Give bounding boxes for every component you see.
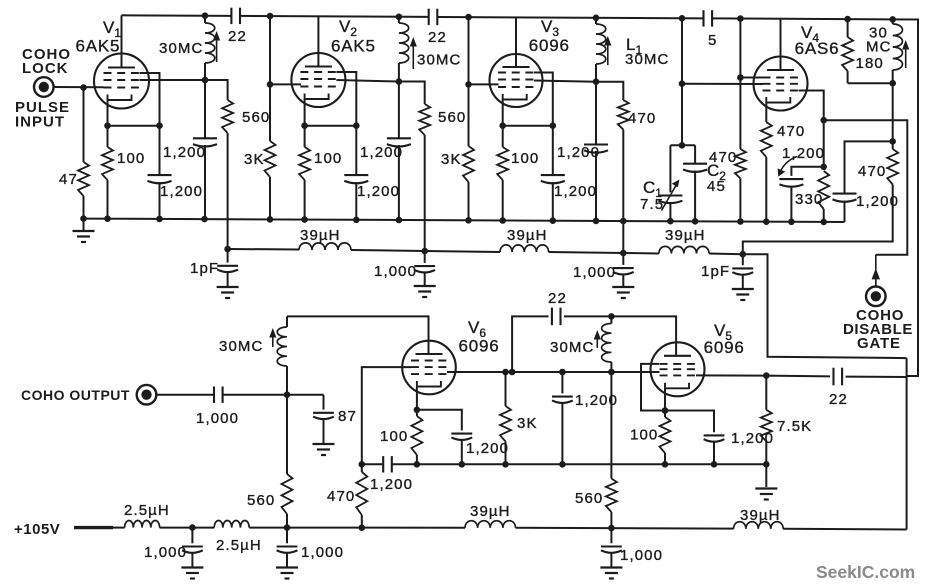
wire 470 output to filter line: [743, 185, 893, 255]
resistor 3K (stage 1): [267, 13, 274, 20]
wire +105V to coil: [113, 527, 125, 529]
svg-text:INPUT: INPUT: [15, 114, 65, 131]
svg-text:3K: 3K: [517, 415, 538, 432]
capacitor 22 (output to disable rail): [832, 368, 834, 386]
svg-text:+105V: +105V: [14, 521, 60, 538]
wire V4 cathode down: [765, 103, 767, 123]
svg-text:7.5K: 7.5K: [777, 418, 812, 435]
resistor 560 (stage 2): [399, 82, 425, 105]
svg-text:7.5: 7.5: [640, 196, 664, 213]
node bus C1 C2: [667, 218, 674, 225]
wire to V4 grid: [682, 83, 763, 85]
svg-text:30MC: 30MC: [550, 339, 594, 356]
wire output node to 87 cap: [287, 394, 324, 396]
wire 22 branch up: [512, 316, 548, 372]
node V2 cathode junction: [301, 122, 308, 129]
node COHO output: [284, 391, 291, 398]
node V5 grid: [608, 369, 615, 376]
capacitor 1,000 a: [424, 251, 426, 263]
arrow tuning slug V4 tank: [905, 47, 907, 68]
svg-text:1pF: 1pF: [190, 260, 219, 277]
svg-text:560: 560: [242, 109, 270, 126]
inductor 30MC (V5 tank): [610, 316, 612, 323]
svg-text:30MC: 30MC: [219, 338, 263, 355]
wire V5 cathode down: [664, 388, 666, 410]
svg-text:100: 100: [511, 150, 539, 167]
wire V6 plate bus: [287, 316, 429, 354]
svg-text:22: 22: [228, 28, 247, 45]
svg-text:30MC: 30MC: [625, 51, 669, 68]
terminal COHO DISABLE GATE: [866, 287, 886, 307]
wire input node down to R 47: [83, 88, 85, 163]
node V4 grid: [679, 80, 686, 87]
wire to V3 grid: [469, 83, 499, 85]
wire 22 to V5 plate: [564, 316, 676, 355]
resistor 560 (V5 feed): [610, 372, 612, 479]
svg-text:6096: 6096: [529, 36, 570, 55]
node 560 bottom: [284, 524, 291, 531]
wire filter line seg 3: [425, 251, 500, 252]
tube V6 6096: [402, 341, 456, 395]
wire top plate bus segment 4 + right rail: [712, 18, 918, 376]
node V4 gate tap: [820, 117, 827, 124]
svg-text:6AS6: 6AS6: [795, 39, 840, 58]
wire V5 cathode to 1200 bypass: [665, 411, 714, 433]
wire input to V1 grid: [54, 86, 104, 88]
wire cap 22 to right rail: [846, 376, 907, 378]
wire filter line seg 5: [623, 252, 659, 255]
capacitor 1,200 (V1 screen bypass): [159, 126, 161, 175]
svg-text:COHO OUTPUT: COHO OUTPUT: [21, 387, 130, 403]
inductor 30MC (V4 tank): [889, 16, 896, 23]
tube V1 6AK5: [94, 54, 149, 109]
capacitor 1,200 (V6 bypass): [451, 433, 472, 435]
wire V4 screen: [740, 77, 763, 79]
node bus V1 set: [104, 215, 111, 222]
svg-text:MC: MC: [866, 39, 892, 56]
svg-text:45: 45: [707, 178, 726, 195]
capacitor 1,000 bl: [191, 528, 193, 544]
svg-text:1,000: 1,000: [144, 544, 187, 561]
svg-text:180: 180: [856, 55, 884, 72]
svg-text:22: 22: [548, 290, 567, 307]
svg-text:39µH: 39µH: [740, 507, 781, 524]
wire V2 plate to top bus: [317, 16, 319, 66]
ground 1pF a: [217, 286, 239, 288]
svg-text:100: 100: [117, 150, 145, 167]
node V3 cathode junction: [499, 122, 506, 129]
svg-text:1,000: 1,000: [573, 264, 616, 281]
capacitor 1,200 series (cathode rail): [382, 456, 384, 472]
resistor 100 (V6): [411, 416, 422, 455]
svg-text:1,200: 1,200: [557, 144, 600, 161]
wire 470 grid branch V4: [737, 15, 744, 22]
svg-text:100: 100: [380, 428, 408, 445]
svg-text:22: 22: [829, 391, 848, 408]
svg-text:39µH: 39µH: [507, 227, 548, 244]
svg-text:1,200: 1,200: [554, 183, 597, 200]
wire V1 grid2 to tank node: [140, 79, 206, 81]
inductor 30MC (V2 tank): [396, 13, 403, 20]
svg-text:1,200: 1,200: [360, 144, 403, 161]
svg-text:5: 5: [708, 32, 717, 49]
resistor 560 (V6 feed): [286, 395, 288, 474]
resistor 100 (V2 cathode): [304, 126, 306, 147]
wire variable 1200 branch: [791, 167, 823, 176]
wire C1 C2 branch from top bus: [679, 15, 686, 22]
wire R47 to ground bus: [83, 196, 85, 219]
wire 560 down through bus to filter line: [227, 133, 229, 249]
wire 560-2 down through bus to filter line: [424, 135, 426, 251]
svg-text:39µH: 39µH: [300, 227, 341, 244]
wire V4 plate to top bus: [780, 19, 782, 70]
wire V6 grid3 output line: [447, 371, 660, 373]
svg-text:470: 470: [327, 488, 355, 505]
wire top plate bus segment 1: [122, 14, 232, 17]
tube V2 6AK5: [291, 53, 345, 107]
capacitor 1,200 (V5 bypass): [704, 434, 725, 436]
tube V4 6AS6: [754, 57, 808, 111]
node bus V3 set: [499, 217, 506, 224]
wire rail seg 2: [249, 527, 465, 529]
arrow to variable 1200: [781, 157, 797, 171]
node 330 top: [820, 164, 827, 171]
node 1pF b: [740, 251, 747, 258]
capacitor 1,000 bm: [286, 528, 288, 544]
svg-text:470: 470: [628, 110, 656, 127]
resistor 47: [78, 162, 89, 196]
svg-text:LOCK: LOCK: [22, 60, 69, 77]
svg-text:30MC: 30MC: [159, 40, 203, 57]
resistor 470 (V4 grid): [735, 149, 746, 178]
wire V3 cathode down: [502, 100, 504, 126]
wire output terminal to cap: [155, 394, 214, 396]
resistor 3K (stage 2): [465, 14, 472, 21]
wire V3 plate to top bus: [515, 17, 517, 67]
wire cap to output node: [223, 394, 287, 396]
terminal COHO OUTPUT: [137, 385, 157, 405]
node 560-2 bottom: [608, 525, 615, 532]
svg-text:1,000: 1,000: [374, 263, 417, 280]
wire rail seg 3: [516, 527, 734, 530]
wire V6 cathode down: [416, 387, 418, 410]
wire right lower rail: [906, 358, 908, 529]
resistor 100 (V1 cathode): [107, 126, 109, 147]
svg-text:1,200: 1,200: [160, 183, 203, 200]
arrow variable C1: [662, 185, 677, 211]
arrow COHO DISABLE: [875, 279, 877, 288]
resistor 470 (stage 3): [596, 82, 623, 100]
node cathode rail left: [359, 461, 366, 468]
tube V5 6096: [651, 342, 705, 396]
capacitor 1,200 (V5 grid): [559, 369, 566, 376]
wire tank down: [892, 83, 894, 141]
node 3K top: [502, 369, 509, 376]
svg-text:30MC: 30MC: [417, 52, 461, 69]
svg-text:SeekIC.com: SeekIC.com: [816, 562, 915, 582]
wire V3 screen down: [534, 73, 553, 126]
svg-text:100: 100: [314, 150, 342, 167]
wire V2 grid2 to tank node: [336, 80, 399, 82]
wire filter line seg 2: [351, 250, 425, 251]
ground 87: [313, 443, 335, 445]
svg-text:470: 470: [777, 123, 805, 140]
svg-text:1,200: 1,200: [370, 476, 413, 493]
svg-text:39µH: 39µH: [470, 503, 511, 520]
capacitor 1,200 (tank 3): [595, 82, 597, 145]
ground 1,000 bl: [181, 566, 203, 568]
svg-text:GATE: GATE: [857, 335, 901, 352]
wire filter to coho disable net: [743, 254, 907, 358]
svg-text:22: 22: [428, 29, 447, 46]
node tank 2: [396, 78, 403, 85]
inductor 39uH b: [500, 245, 549, 252]
svg-text:2.5µH: 2.5µH: [124, 502, 170, 519]
capacitor 1,200 (tank 2): [398, 82, 400, 139]
capacitor 1pF b: [742, 254, 744, 265]
resistor 470 (V6 grid leak): [356, 472, 367, 515]
wire V1 screen to cap node: [140, 73, 160, 126]
svg-text:470: 470: [709, 149, 737, 166]
inductor 30MC (V1 tank): [202, 12, 209, 19]
svg-text:6AK5: 6AK5: [331, 37, 376, 56]
capacitor 1,200 (V3 screen bypass): [552, 126, 554, 175]
wire C1 C2 bracket: [670, 144, 695, 146]
wire +105V feed thick: [74, 526, 113, 529]
wire V1 plate to top bus: [121, 15, 123, 67]
wire to V2 grid: [270, 83, 301, 85]
ground 1,000 bm: [276, 566, 298, 568]
node V4 tank bottom: [889, 80, 896, 87]
svg-text:1,000: 1,000: [301, 544, 344, 561]
wire top plate bus segment 3: [437, 17, 703, 18]
tube V3 6096: [490, 54, 543, 107]
node V2 screen junction: [353, 122, 360, 129]
wire filter line seg 4: [549, 252, 624, 253]
wire rail seg: [160, 527, 215, 529]
node V6 cathode: [414, 407, 421, 414]
wire filter line seg 1: [228, 248, 299, 251]
resistor 7.5K: [765, 376, 767, 410]
node V1 cathode junction: [104, 122, 111, 129]
node V4 screen: [737, 74, 744, 81]
ground 1,000 b: [612, 286, 634, 288]
ground 1,000 (V5 feed): [600, 566, 622, 568]
resistor 330: [818, 171, 829, 209]
inductor 39uH bottom b: [734, 522, 784, 529]
wire cathode-screen link: [108, 125, 160, 127]
wire V2 cathode-screen link: [305, 125, 357, 127]
inductor 2.5uH a: [125, 520, 160, 527]
wire to COHO DISABLE rail: [824, 120, 908, 255]
svg-text:100: 100: [630, 427, 658, 444]
ground symbol at bus left: [83, 219, 85, 230]
capacitor 1,000 b: [622, 253, 624, 265]
wire V5 grid3 to 22 out: [696, 374, 766, 376]
capacitor 1pF a: [227, 249, 229, 263]
svg-text:330: 330: [795, 191, 823, 208]
capacitor 1,200 variable (V4): [779, 178, 803, 180]
inductor L1 30MC: [593, 14, 600, 21]
inductor 30MC (V6 tank): [286, 316, 288, 327]
inductor 39uH bottom a: [465, 521, 516, 528]
svg-text:3K: 3K: [441, 151, 462, 168]
wire top plate bus segment 2: [240, 16, 428, 17]
node V5 cathode: [662, 407, 669, 414]
wire V6 grid left down: [362, 367, 411, 464]
capacitor 1,000 output coupling: [213, 387, 215, 403]
capacitor 1,000 (V5 feed bypass): [610, 528, 612, 543]
arrow tuning slug V5 tank: [596, 337, 598, 348]
svg-text:560: 560: [575, 490, 603, 507]
node C1 C2 bracket: [679, 142, 686, 149]
wire V3 grid2 to tank node: [534, 81, 596, 82]
svg-text:3K: 3K: [244, 151, 265, 168]
svg-text:470: 470: [858, 163, 886, 180]
resistor 3K (output): [505, 372, 507, 406]
ground 7.5K: [755, 487, 777, 489]
resistor 470 (V4 cathode): [761, 122, 772, 157]
arrow tuning slug V6 tank: [272, 335, 274, 347]
inductor 39uH c: [659, 246, 709, 253]
arrow tuning slug V2 tank: [412, 44, 414, 69]
wire V5 grid1 left down: [641, 364, 665, 411]
wire 180 to coil bottom: [848, 82, 893, 84]
node 1pF a: [224, 246, 231, 253]
node 1000 b: [620, 250, 627, 257]
wire 470 down through bus to filter line: [622, 130, 624, 254]
capacitor 5 (V3-V4 coupling): [702, 10, 704, 26]
svg-text:39µH: 39µH: [665, 227, 706, 244]
svg-text:1,200: 1,200: [163, 144, 206, 161]
cathode rail with series cap: [362, 463, 383, 465]
node V3 screen junction: [550, 122, 557, 129]
capacitor 1,200 (V2 screen bypass): [355, 126, 357, 175]
node 1000 a: [421, 248, 428, 255]
svg-text:6096: 6096: [459, 337, 500, 356]
svg-text:1,200: 1,200: [856, 193, 899, 210]
svg-text:560: 560: [438, 109, 466, 126]
svg-text:1,000: 1,000: [196, 410, 239, 427]
node 1,000 bl: [189, 524, 196, 531]
wire rail seg 4: [783, 528, 906, 531]
svg-text:1,200: 1,200: [466, 440, 509, 457]
node tank 3: [593, 78, 600, 85]
node V2 grid: [267, 81, 274, 88]
capacitor 87: [323, 395, 325, 410]
svg-text:1,000: 1,000: [620, 547, 663, 564]
ground 1pF b: [732, 288, 754, 290]
svg-text:87: 87: [338, 408, 357, 425]
capacitor C1 7.5 variable: [669, 145, 671, 192]
wire V2 screen down: [336, 72, 356, 126]
resistor 560 (stage 1): [205, 80, 228, 100]
wire V3 cathode-screen link: [503, 125, 553, 127]
resistor 470 (V4 output): [887, 149, 898, 185]
capacitor 22 (V2-V3 coupling): [428, 9, 430, 25]
node 22 branch: [509, 369, 516, 376]
inductor 39uH a: [299, 243, 351, 250]
svg-text:2.5µH: 2.5µH: [216, 537, 262, 554]
node 7.5K top: [763, 372, 770, 379]
svg-text:1,200: 1,200: [357, 183, 400, 200]
wire V1 cathode down: [107, 100, 109, 126]
resistor 100 (V5): [664, 411, 666, 418]
resistor 100 (V3 cathode): [502, 126, 504, 147]
svg-text:6AK5: 6AK5: [76, 37, 121, 56]
ground bus wire: [84, 219, 845, 222]
node V1 screen junction: [156, 122, 163, 129]
node bus V2 set: [301, 216, 308, 223]
svg-text:1,200: 1,200: [782, 145, 825, 162]
node V3 grid: [465, 81, 472, 88]
capacitor 22 (V1-V2 coupling): [230, 8, 232, 24]
svg-text:1pF: 1pF: [701, 263, 730, 280]
svg-text:47: 47: [59, 171, 78, 188]
svg-text:560: 560: [247, 492, 275, 509]
wire V4 grid3 right: [799, 91, 824, 167]
capacitor C2 45: [694, 145, 696, 163]
node 470/1200 top: [889, 138, 896, 145]
svg-text:6096: 6096: [704, 338, 745, 357]
node tank 1: [202, 77, 209, 84]
capacitor 22 (V6-V5 coupling): [551, 308, 553, 326]
ground 1,000 a: [414, 285, 436, 287]
inductor 2.5uH b: [214, 520, 249, 527]
node V5 tank top: [608, 313, 615, 320]
wire to cap 22 output: [766, 375, 830, 378]
arrow tuning slug V1 tank: [216, 38, 218, 62]
arrow tuning slug L1: [607, 43, 609, 65]
node 470 bottom: [359, 524, 366, 531]
wire V2 cathode down: [304, 99, 306, 126]
capacitor 1,200 (V4 output): [845, 141, 893, 193]
wire V6 cathode to 1200 bypass: [417, 410, 462, 431]
terminal COHO LOCK PULSE INPUT: [34, 77, 54, 97]
node input junction: [80, 84, 87, 91]
capacitor 1,200 (tank 1): [204, 80, 206, 138]
resistor 180: [844, 16, 851, 23]
